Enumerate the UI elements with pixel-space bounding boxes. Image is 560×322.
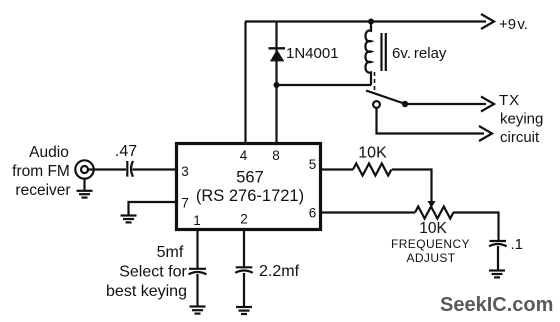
wire connector to ground [83, 179, 85, 191]
ground C4 [489, 271, 505, 278]
resistor R1 10K [353, 164, 391, 176]
ground C2 [190, 307, 206, 314]
wire +9v supply rail [245, 20, 486, 22]
svg-text:7: 7 [181, 196, 189, 211]
wire pole terminal to keying circuit [377, 108, 485, 134]
svg-text:4: 4 [240, 148, 248, 163]
+9v arrowhead [481, 14, 494, 29]
svg-text:5: 5 [309, 157, 317, 172]
relay K1 coil [365, 22, 371, 86]
wire pin 2 to C3 [243, 229, 245, 267]
wire R1 to pot wiper [392, 170, 432, 202]
capacitor C1 .47 [127, 161, 133, 177]
svg-text:FREQUENCY: FREQUENCY [391, 237, 470, 251]
wire TX keying [405, 103, 486, 105]
pot wiper arrowhead [427, 201, 435, 208]
svg-text:6v. relay: 6v. relay [392, 45, 447, 62]
wire pin 6 to R2 [320, 211, 415, 213]
ground C3 [236, 307, 252, 314]
circuit arrowhead [479, 126, 492, 141]
wire pin 4 to +9v rail [244, 22, 246, 144]
svg-text:.47: .47 [115, 143, 137, 160]
wire C4 to ground [497, 246, 499, 271]
svg-text:1: 1 [193, 213, 201, 228]
relay switch blade [366, 91, 404, 104]
svg-text:ADJUST: ADJUST [406, 251, 455, 265]
label TX keying circuit [499, 92, 543, 146]
relay core bars [380, 33, 382, 71]
svg-text:circuit: circuit [500, 129, 540, 146]
potentiometer R2 10K [415, 207, 453, 219]
svg-text:.1: .1 [511, 236, 524, 253]
svg-text:10K: 10K [358, 144, 387, 161]
wire pin 8 branch (diode branch) [275, 22, 277, 144]
svg-text:1N4001: 1N4001 [286, 45, 339, 62]
capacitor C2 5mf [189, 269, 207, 275]
wire junction to relay coil [277, 84, 372, 86]
wire connector to C1 [88, 168, 126, 170]
wire C2 to ground [196, 274, 198, 307]
svg-text:2: 2 [240, 211, 248, 226]
svg-text:from FM: from FM [12, 163, 70, 180]
junction diode / relay wire [274, 82, 280, 88]
diode D1 1N4001 [269, 48, 286, 61]
wire pin 5 to R1 [320, 168, 353, 170]
svg-text:TX: TX [499, 92, 520, 109]
wire C1 to pin 3 [133, 168, 178, 170]
svg-text:6: 6 [309, 205, 317, 220]
label Audio from FM receiver [12, 144, 70, 199]
wire R2 to C4 [453, 213, 499, 241]
capacitor C4 .1 [489, 241, 507, 246]
svg-text:keying: keying [500, 111, 543, 128]
svg-text:5mf: 5mf [157, 244, 184, 261]
connector J1 audio input [75, 160, 93, 178]
svg-text:10K: 10K [419, 220, 447, 237]
label 10K FREQUENCY ADJUST [391, 220, 470, 265]
relay actuator dashed link [374, 72, 376, 93]
relay switch pole terminal [373, 101, 380, 108]
capacitor C3 2.2mf [235, 267, 253, 273]
svg-text:2.2mf: 2.2mf [259, 263, 300, 280]
wire C3 to ground [243, 273, 245, 307]
relay switch contact junction [402, 101, 408, 107]
TX arrowhead [481, 97, 494, 112]
op IC U1 567 tone decoder box [177, 144, 321, 230]
svg-text:+9 v.: +9 v. [499, 16, 528, 33]
junction +9v rail / relay coil [368, 19, 374, 25]
ground pin 7 [121, 216, 137, 223]
svg-text:567: 567 [236, 169, 264, 187]
svg-text:Audio: Audio [29, 144, 69, 161]
svg-text:receiver: receiver [15, 182, 70, 199]
wire pin 7 to ground [129, 202, 178, 215]
svg-text:SeekIC.com: SeekIC.com [440, 294, 553, 316]
svg-text:(RS 276-1721): (RS 276-1721) [196, 187, 304, 205]
ground connector [77, 191, 93, 198]
svg-text:best keying: best keying [106, 283, 187, 300]
label 5mf Select for best keying [106, 244, 187, 300]
svg-text:8: 8 [272, 148, 280, 163]
wire pin 1 to C2 [196, 229, 198, 268]
svg-text:Select for: Select for [119, 264, 187, 281]
svg-text:3: 3 [181, 164, 189, 179]
